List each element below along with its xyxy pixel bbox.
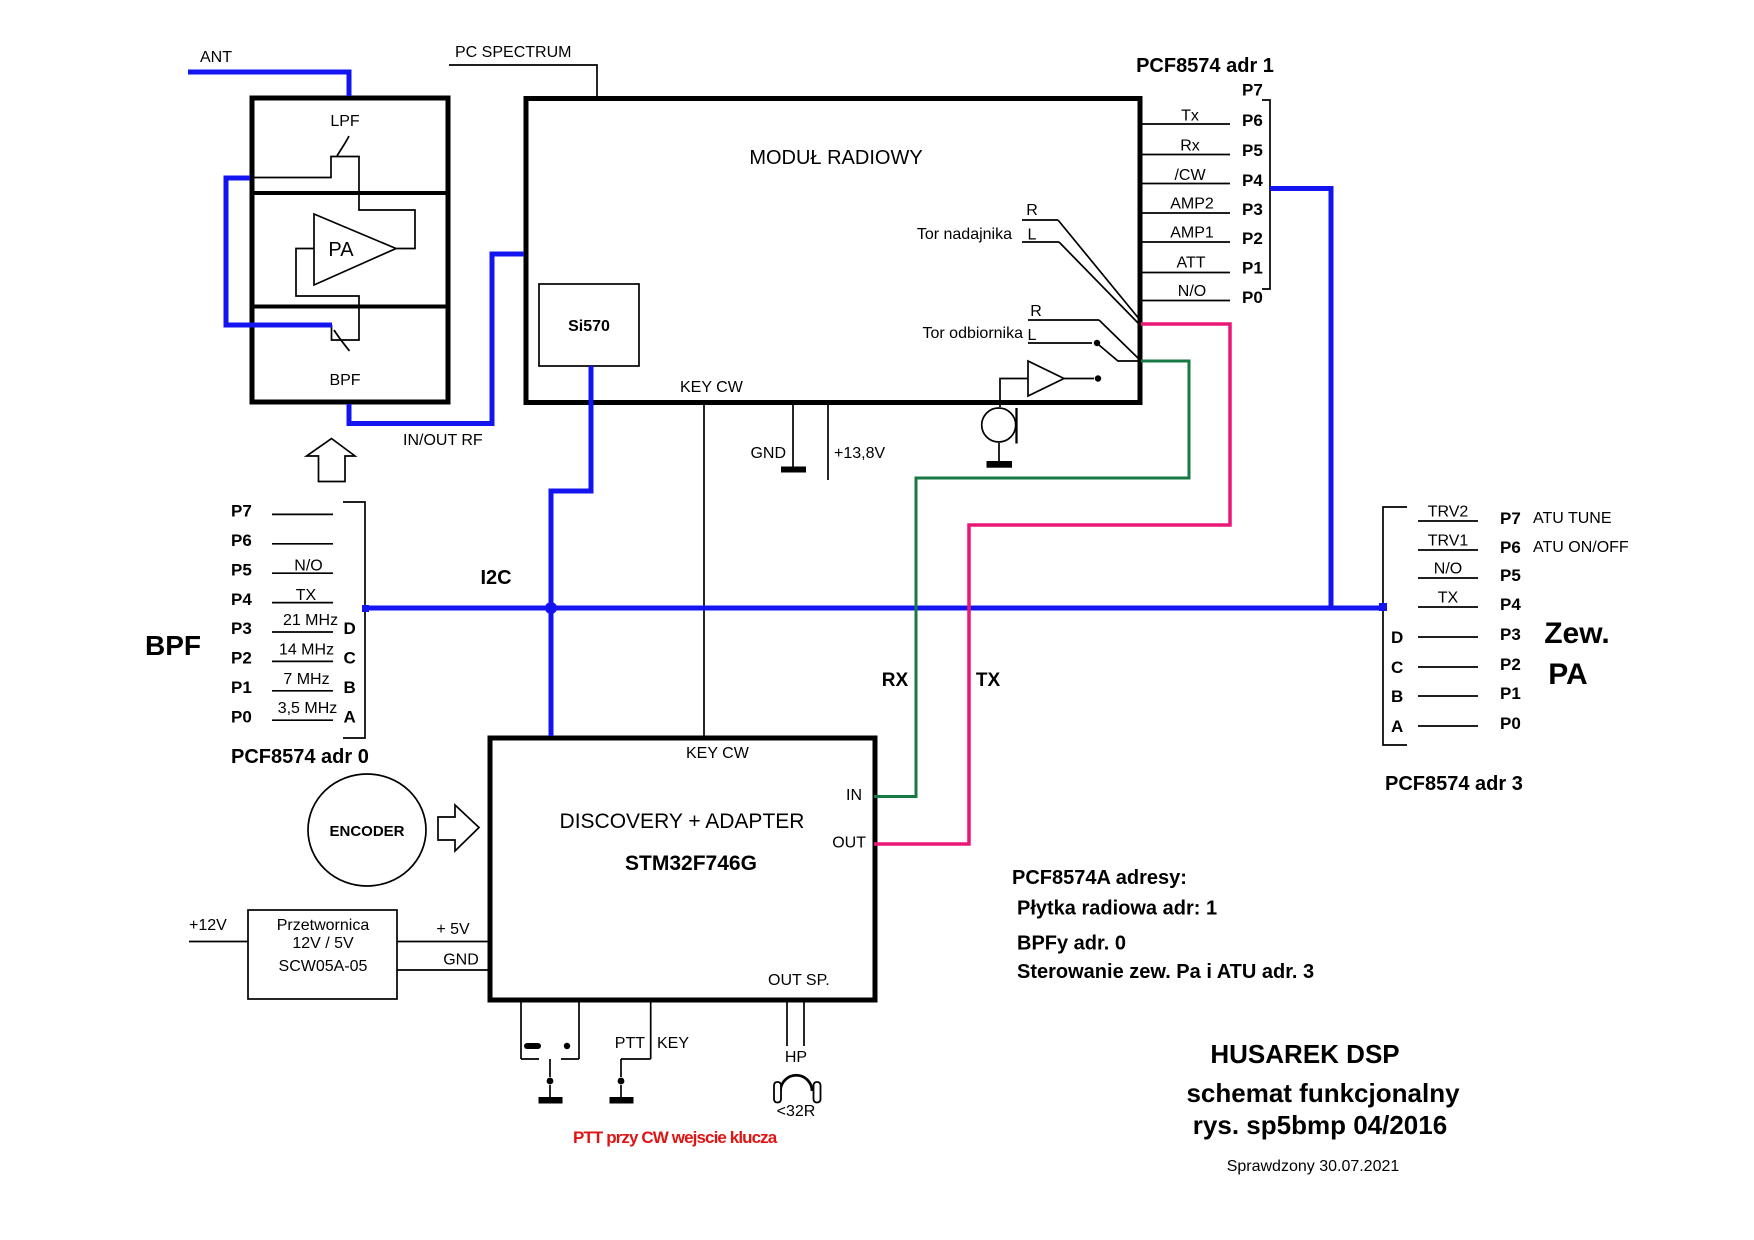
svg-text:IN/OUT RF: IN/OUT RF [403,432,483,449]
svg-text:B: B [1391,687,1403,706]
svg-text:3,5 MHz: 3,5 MHz [278,700,338,717]
svg-text:P6: P6 [1242,111,1263,130]
svg-text:N/O: N/O [294,557,322,574]
svg-text:ATU TUNE: ATU TUNE [1533,510,1612,527]
svg-text:Si570: Si570 [568,318,610,335]
svg-text:N/O: N/O [1434,561,1462,578]
svg-text:Zew.: Zew. [1544,617,1610,650]
svg-text:MODUŁ RADIOWY: MODUŁ RADIOWY [749,147,922,169]
junction dot L contact [1094,340,1100,346]
oscillator Si570 [539,284,639,366]
svg-text:TX: TX [296,587,317,604]
power supply Przetwornica 12V/5V SCW05A-05 [248,910,397,999]
svg-text:KEY CW: KEY CW [686,745,750,762]
svg-text:P0: P0 [231,707,252,726]
svg-text:C: C [344,649,356,668]
wire Tor nadajnika L to edge [1059,242,1140,325]
wire PA input to BPF switch [296,249,359,341]
svg-text:ATU ON/OFF: ATU ON/OFF [1533,539,1629,556]
svg-text:Przetwornica: Przetwornica [277,917,370,934]
filter block LPF/PA/BPF box [252,98,448,402]
svg-text:P1: P1 [1242,259,1263,278]
svg-text:PCF8574 adr 1: PCF8574 adr 1 [1136,55,1274,77]
svg-text:Tor odbiornika: Tor odbiornika [923,325,1024,342]
svg-text:12V / 5V: 12V / 5V [292,935,354,952]
svg-text:PC SPECTRUM: PC SPECTRUM [455,44,571,61]
svg-text:B: B [344,678,356,697]
svg-text:HUSAREK DSP: HUSAREK DSP [1210,1039,1399,1069]
svg-text:Płytka radiowa adr: 1: Płytka radiowa adr: 1 [1017,898,1217,920]
svg-text:P2: P2 [1500,655,1521,674]
svg-text:P5: P5 [231,560,252,579]
svg-text:PTT przy CW wejscie klucza: PTT przy CW wejscie klucza [573,1128,778,1147]
switch lever LPF [337,136,349,156]
svg-text:rys. sp5bmp 04/2016: rys. sp5bmp 04/2016 [1193,1110,1447,1140]
wire I2C Si570 to bus and discovery (blue) [551,366,591,736]
svg-text:LPF: LPF [330,113,360,130]
svg-text:OUT SP.: OUT SP. [768,972,830,989]
svg-text:P3: P3 [1500,625,1521,644]
svg-text:IN: IN [846,787,862,804]
junction I2C bus at BPF bracket [362,605,369,612]
svg-text:<32R: <32R [777,1103,816,1120]
svg-text:+ 5V: + 5V [436,921,470,938]
svg-text:PCF8574A adresy:: PCF8574A adresy: [1012,867,1187,889]
svg-text:A: A [1391,717,1403,736]
ground (S2) [610,1097,634,1104]
svg-text:Sprawdzony 30.07.2021: Sprawdzony 30.07.2021 [1227,1158,1400,1175]
svg-text:P1: P1 [1500,684,1521,703]
svg-text:PCF8574 adr 3: PCF8574 adr 3 [1385,773,1523,795]
encoder ENCODER [308,774,426,886]
svg-text:+13,8V: +13,8V [834,445,885,462]
svg-text:BPF: BPF [145,630,201,661]
wire amp input from microphone [1000,379,1028,408]
svg-text:D: D [344,619,356,638]
svg-text:N/O: N/O [1178,283,1206,300]
svg-text:P1: P1 [231,678,252,697]
svg-text:Tor nadajnika: Tor nadajnika [917,226,1012,243]
svg-text:R: R [1026,202,1038,219]
svg-text:P5: P5 [1500,566,1521,585]
svg-text:P2: P2 [1242,229,1263,248]
wire KEY CW radio to discovery [703,400,705,738]
LPF/PA divider [252,191,448,195]
svg-text:/CW: /CW [1174,167,1206,184]
svg-text:HP: HP [785,1049,807,1066]
svg-text:ANT: ANT [200,49,232,66]
svg-text:Rx: Rx [1180,138,1200,155]
svg-text:14 MHz: 14 MHz [279,642,334,659]
switch arm to green output [1099,345,1140,361]
svg-text:TRV1: TRV1 [1428,533,1469,550]
arrow encoder to discovery [438,805,479,851]
amplifier PA [314,214,396,285]
svg-text:ENCODER: ENCODER [329,823,404,840]
svg-text:P3: P3 [231,619,252,638]
module DISCOVERY + ADAPTER box [490,738,875,1000]
svg-text:OUT: OUT [832,835,866,852]
svg-text:BPFy adr. 0: BPFy adr. 0 [1017,933,1126,955]
junction I2C bus at PCF adr3 bracket [1379,603,1387,611]
svg-text:PA: PA [328,239,354,261]
svg-text:P4: P4 [1500,595,1521,614]
wire ANT coax (blue) [188,72,349,96]
junction I2C bus at discovery riser [545,602,557,614]
wire IN/OUT RF (blue) [349,254,524,424]
wire OUT SP. to headphones [786,1000,788,1046]
wire Tor odbiornika R to edge [1099,320,1140,360]
svg-text:P4: P4 [1242,171,1263,190]
op-amp monitor amplifier [1028,361,1064,396]
svg-text:KEY CW: KEY CW [680,379,744,396]
svg-text:P5: P5 [1242,141,1263,160]
svg-text:AMP1: AMP1 [1170,225,1214,242]
svg-text:TRV2: TRV2 [1428,504,1469,521]
svg-text:ATT: ATT [1176,255,1205,272]
microphone MIC [982,408,1016,442]
PA/BPF divider [252,305,448,309]
wire I2C to PCF adr1 (blue) [1270,189,1331,609]
svg-text:+12V: +12V [189,917,227,934]
svg-text:GND: GND [750,445,786,462]
svg-text:P6: P6 [1500,538,1521,557]
power +13,8V [827,400,829,480]
svg-text:R: R [1030,303,1042,320]
svg-text:P6: P6 [231,531,252,550]
svg-text:BPF: BPF [329,372,360,389]
svg-text:PCF8574 adr 0: PCF8574 adr 0 [231,746,369,768]
switch lever BPF [334,330,350,351]
svg-text:C: C [1391,658,1403,677]
bracket PCF adr3 [1383,507,1407,745]
svg-text:DISCOVERY + ADAPTER: DISCOVERY + ADAPTER [560,810,805,833]
svg-text:A: A [344,707,356,726]
svg-text:PTT: PTT [615,1035,645,1052]
switch S2 to ground [620,1059,622,1077]
svg-text:SCW05A-05: SCW05A-05 [279,958,368,975]
bracket PCF adr0 [343,502,365,738]
connector J1 paddle jack [520,1000,522,1059]
wire Tor nadajnika R to edge [1058,220,1140,320]
svg-text:P7: P7 [231,502,252,521]
wire LPF switch to PA output [252,157,415,249]
svg-text:AMP2: AMP2 [1170,196,1214,213]
bracket PCF adr1 [1262,100,1270,289]
svg-text:D: D [1391,628,1403,647]
svg-text:KEY: KEY [657,1035,689,1052]
arrow up symbol [307,439,356,482]
svg-text:P4: P4 [231,590,252,609]
svg-text:STM32F746G: STM32F746G [625,852,757,875]
svg-text:L: L [1028,227,1037,244]
svg-text:I2C: I2C [480,567,511,589]
wire RX audio (green) [874,361,1189,797]
svg-text:TX: TX [976,670,1001,691]
svg-text:P0: P0 [1242,288,1263,307]
svg-text:21 MHz: 21 MHz [283,612,338,629]
svg-text:RX: RX [882,670,909,691]
svg-text:Sterowanie zew. Pa i ATU adr.: Sterowanie zew. Pa i ATU adr. 3 [1017,961,1314,983]
connector PTT / KEY [650,1000,652,1059]
ground (S1) [539,1097,563,1104]
svg-text:P2: P2 [231,649,252,668]
svg-text:schemat funkcjonalny: schemat funkcjonalny [1186,1078,1460,1108]
wire TX audio (pink) [874,324,1230,844]
svg-text:GND: GND [443,952,479,969]
ground GND (radio) [792,400,794,467]
svg-text:L: L [1028,327,1037,344]
svg-text:7 MHz: 7 MHz [283,671,329,688]
module MODUL RADIOWY box [526,99,1140,403]
svg-text:P3: P3 [1242,200,1263,219]
switch S1 to ground [549,1059,551,1077]
svg-text:PA: PA [1548,658,1587,691]
wire LPF to BPF loop (blue) [226,178,332,325]
wire I2C bus horizontal (blue) [365,606,1383,611]
svg-text:P0: P0 [1500,714,1521,733]
wire PC SPECTRUM to radio module [449,65,597,97]
ground (microphone) [998,443,1000,461]
junction dot amp output [1095,375,1101,381]
svg-text:TX: TX [1438,590,1459,607]
svg-text:P7: P7 [1500,509,1521,528]
svg-text:P7: P7 [1242,81,1263,100]
svg-text:Tx: Tx [1181,108,1199,125]
